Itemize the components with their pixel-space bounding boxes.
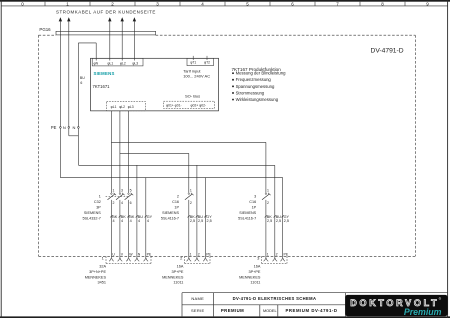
svg-text:1: 1 xyxy=(267,252,269,256)
svg-text:1: 1 xyxy=(190,252,192,256)
svg-text:MENNEKES: MENNEKES xyxy=(239,275,261,279)
svg-text:4: 4 xyxy=(147,219,149,223)
svg-text:PG16: PG16 xyxy=(39,27,51,32)
svg-text:C16: C16 xyxy=(249,200,256,204)
svg-text:6: 6 xyxy=(130,201,132,205)
svg-text:φL3: φL3 xyxy=(128,105,134,109)
svg-text:φL1: φL1 xyxy=(107,61,113,65)
svg-text:PE: PE xyxy=(147,252,152,256)
svg-text:4: 4 xyxy=(138,219,140,223)
svg-text:2: 2 xyxy=(276,252,278,256)
svg-text:PE: PE xyxy=(51,125,57,130)
svg-text:1: 1 xyxy=(99,195,101,199)
svg-text:6: 6 xyxy=(80,81,82,85)
svg-text:SIEMENS: SIEMENS xyxy=(94,71,115,76)
svg-text:BU: BU xyxy=(80,76,85,80)
svg-text:2,5: 2,5 xyxy=(267,219,272,223)
svg-text:MODEL: MODEL xyxy=(263,309,278,313)
svg-text:1: 1 xyxy=(267,189,269,193)
svg-text:11011: 11011 xyxy=(250,281,260,285)
svg-text:φN: φN xyxy=(94,61,99,65)
svg-text:11011: 11011 xyxy=(173,281,183,285)
svg-text:Frequenzmessung: Frequenzmessung xyxy=(236,77,272,82)
svg-text:N: N xyxy=(73,125,76,130)
svg-text:1: 1 xyxy=(113,189,115,193)
svg-text:2,5: 2,5 xyxy=(276,219,281,223)
svg-text:4: 4 xyxy=(121,219,123,223)
svg-text:PE: PE xyxy=(284,252,289,256)
svg-text:5SL4332-7: 5SL4332-7 xyxy=(82,216,100,220)
svg-text:PREMIUM: PREMIUM xyxy=(221,308,244,313)
svg-text:2: 2 xyxy=(198,252,200,256)
svg-text:2: 2 xyxy=(190,201,192,205)
svg-text:C32: C32 xyxy=(94,200,101,204)
svg-text:5SL4116-7: 5SL4116-7 xyxy=(161,216,179,220)
svg-text:3P+PE: 3P+PE xyxy=(248,270,260,274)
svg-text:2,5: 2,5 xyxy=(207,219,212,223)
svg-text:φ01+ φ01-: φ01+ φ01- xyxy=(166,103,182,107)
svg-text:N: N xyxy=(63,125,66,130)
svg-text:32A: 32A xyxy=(99,265,106,269)
svg-text:φT2: φT2 xyxy=(204,60,210,64)
svg-text:2,5: 2,5 xyxy=(198,219,203,223)
svg-text:2,5: 2,5 xyxy=(190,219,195,223)
svg-text:1: 1 xyxy=(190,189,192,193)
svg-text:NAME: NAME xyxy=(191,296,204,301)
svg-text:4: 4 xyxy=(130,219,132,223)
svg-text:2,5: 2,5 xyxy=(284,219,289,223)
svg-text:MENNEKES: MENNEKES xyxy=(162,275,184,279)
svg-text:Spannungsmessung: Spannungsmessung xyxy=(236,84,275,89)
svg-text:3: 3 xyxy=(254,195,256,199)
svg-text:7KT1671: 7KT1671 xyxy=(93,84,111,89)
svg-text:SERIE: SERIE xyxy=(191,308,205,313)
svg-text:3P: 3P xyxy=(96,206,101,210)
svg-text:4: 4 xyxy=(121,201,123,205)
svg-text:φL3: φL3 xyxy=(132,61,138,65)
svg-text:PE: PE xyxy=(206,252,211,256)
svg-text:DV-4791-D: DV-4791-D xyxy=(371,48,404,55)
svg-text:C16: C16 xyxy=(172,200,179,204)
svg-text:16A: 16A xyxy=(254,265,261,269)
svg-text:16A: 16A xyxy=(177,265,184,269)
svg-text:2: 2 xyxy=(113,201,115,205)
svg-text:3P+PE: 3P+PE xyxy=(171,270,183,274)
svg-text:1P: 1P xyxy=(252,206,257,210)
svg-text:2: 2 xyxy=(267,201,269,205)
svg-text:φL2: φL2 xyxy=(120,61,126,65)
svg-text:DV-4791-D ELEKTRISCHES SCHEMA: DV-4791-D ELEKTRISCHES SCHEMA xyxy=(233,296,317,301)
svg-text:2: 2 xyxy=(177,195,179,199)
svg-text:SIEMENS: SIEMENS xyxy=(239,211,256,215)
svg-text:Strommessung: Strommessung xyxy=(236,90,265,95)
svg-text:MENNEKES: MENNEKES xyxy=(85,275,107,279)
svg-text:1P: 1P xyxy=(174,206,179,210)
svg-text:3: 3 xyxy=(121,189,123,193)
svg-text:STROMKABEL AUF DER KUNDENSEITE: STROMKABEL AUF DER KUNDENSEITE xyxy=(56,9,156,14)
svg-text:φ02+ φ02-: φ02+ φ02- xyxy=(191,103,207,107)
svg-text:φL1: φL1 xyxy=(111,105,117,109)
svg-text:SO- Bus: SO- Bus xyxy=(185,93,200,98)
svg-text:Premium: Premium xyxy=(404,307,442,317)
svg-text:4: 4 xyxy=(113,219,115,223)
svg-text:5: 5 xyxy=(130,189,132,193)
svg-text:5SL4116-7: 5SL4116-7 xyxy=(238,216,256,220)
svg-text:φL2: φL2 xyxy=(119,105,125,109)
svg-text:SIEMENS: SIEMENS xyxy=(162,211,179,215)
svg-text:3451: 3451 xyxy=(98,281,106,285)
svg-text:φT1: φT1 xyxy=(190,60,196,64)
svg-text:Wirkleistungsmessung: Wirkleistungsmessung xyxy=(236,97,279,102)
svg-text:PREMIUM DV-4791-D: PREMIUM DV-4791-D xyxy=(285,308,337,313)
svg-text:Messung der Blindleistung: Messung der Blindleistung xyxy=(236,71,286,76)
svg-text:100... 240V AC: 100... 240V AC xyxy=(183,74,210,79)
svg-text:SIEMENS: SIEMENS xyxy=(84,211,101,215)
svg-text:3P+N+PE: 3P+N+PE xyxy=(89,270,106,274)
